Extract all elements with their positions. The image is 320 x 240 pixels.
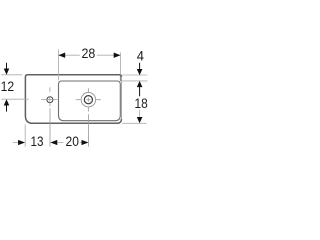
dim 20 line left segment <box>57 142 63 144</box>
dim 28 arrow left <box>58 53 65 58</box>
dim 28 line <box>58 54 120 56</box>
svg-text:20: 20 <box>66 134 79 150</box>
basin outer outline <box>25 75 121 124</box>
drain centerline vertical <box>87 88 89 146</box>
bottom dimension line tail left <box>13 142 19 144</box>
basin outline right edge (light) <box>121 77 123 120</box>
drain inner circle <box>84 96 92 104</box>
bowl outline <box>59 81 121 121</box>
dim 18 down arrow <box>137 117 143 123</box>
dim 18 line lower part <box>139 110 141 117</box>
drain hole detail tick <box>91 101 92 102</box>
svg-text:4: 4 <box>137 48 144 64</box>
dim 28 arrow right <box>114 53 121 58</box>
dim 4 extension line upper <box>122 74 147 76</box>
tap centerline vertical <box>49 87 51 146</box>
drain outer circle <box>81 92 96 107</box>
dim 12 up arrow with stem <box>4 99 10 105</box>
dim 20 arrow left <box>50 140 57 145</box>
dim 12 extension line top <box>1 74 22 76</box>
svg-text:13: 13 <box>31 134 44 150</box>
dim 18 extension line bottom <box>122 122 146 124</box>
tap hole centerline cross <box>46 96 54 103</box>
dim 4 / dim 18 shared up arrow with stem <box>137 81 143 87</box>
dim 28 extension line left <box>57 50 59 81</box>
dim 13 arrow left <box>18 140 25 145</box>
svg-text:12: 12 <box>1 79 15 95</box>
svg-text:18: 18 <box>135 96 148 112</box>
dim 28 extension line right <box>120 53 122 75</box>
dim 13/20 extension line at basin left <box>24 124 26 146</box>
dim 12 extension line bottom <box>1 98 29 100</box>
svg-text:28: 28 <box>82 46 96 62</box>
bowl rear-right rim seam <box>119 75 121 81</box>
dim 12 down arrow with stem <box>6 63 8 69</box>
tap hole <box>47 97 53 103</box>
tap centerline horizontal <box>41 99 57 101</box>
dim 20 line right segment <box>80 142 84 144</box>
dim 4 down arrow with stem <box>139 63 141 70</box>
dim 20 arrow right <box>82 140 89 145</box>
drain centerline cross <box>86 98 90 102</box>
dim 4 extension line lower <box>121 80 147 82</box>
drain centerline horizontal <box>76 99 101 101</box>
